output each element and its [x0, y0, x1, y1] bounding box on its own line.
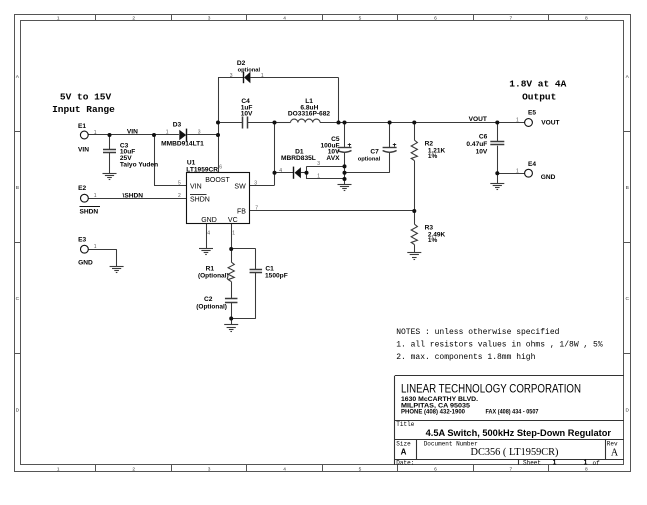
svg-text:3: 3	[208, 15, 211, 21]
svg-text:(Optional): (Optional)	[196, 304, 227, 311]
svg-text:3: 3	[208, 466, 211, 472]
svg-text:7: 7	[510, 15, 513, 21]
svg-text:1%: 1%	[428, 237, 438, 244]
svg-text:1: 1	[516, 168, 519, 174]
svg-text:2: 2	[132, 466, 135, 472]
svg-text:DO3316P-682: DO3316P-682	[288, 110, 330, 117]
svg-text:3: 3	[230, 73, 233, 79]
svg-text:7: 7	[255, 206, 258, 212]
svg-text:1: 1	[166, 129, 169, 135]
svg-text:NOTES : unless otherwise speci: NOTES : unless otherwise specified	[396, 328, 559, 337]
svg-text:1: 1	[94, 193, 97, 199]
svg-text:1: 1	[553, 460, 557, 467]
svg-text:B: B	[16, 185, 19, 191]
svg-text:4: 4	[279, 168, 282, 174]
svg-text:VOUT: VOUT	[541, 120, 559, 127]
svg-text:DC356 ( LT1959CR): DC356 ( LT1959CR)	[471, 447, 559, 458]
svg-text:SHDN: SHDN	[80, 208, 99, 215]
svg-text:MMBD914LT1: MMBD914LT1	[161, 141, 204, 148]
svg-text:D3: D3	[173, 122, 182, 129]
svg-text:3: 3	[198, 129, 201, 135]
svg-text:C: C	[625, 296, 629, 302]
svg-text:\SHDN: \SHDN	[123, 193, 144, 200]
svg-text:of: of	[593, 460, 601, 467]
svg-text:2. max. components 1.8mm high: 2. max. components 1.8mm high	[396, 353, 535, 362]
svg-text:Date:: Date:	[396, 459, 414, 466]
svg-text:8: 8	[585, 15, 588, 21]
svg-text:A: A	[611, 447, 619, 458]
svg-text:1: 1	[584, 460, 588, 467]
svg-text:4: 4	[283, 466, 286, 472]
svg-text:VC: VC	[228, 217, 238, 224]
svg-text:4: 4	[283, 15, 286, 21]
svg-text:AVX: AVX	[326, 155, 340, 162]
svg-text:1: 1	[261, 73, 264, 79]
svg-text:BOOST: BOOST	[205, 177, 230, 184]
svg-text:4.5A Switch, 500kHz Step-Down: 4.5A Switch, 500kHz Step-Down Regulator	[426, 428, 612, 439]
svg-text:1: 1	[57, 466, 60, 472]
svg-text:SW: SW	[234, 183, 246, 190]
svg-text:LINEAR TECHNOLOGY CORPORATION: LINEAR TECHNOLOGY CORPORATION	[401, 384, 581, 396]
svg-text:C: C	[16, 296, 20, 302]
svg-text:C2: C2	[204, 296, 213, 303]
svg-text:5: 5	[178, 180, 181, 186]
svg-text:U1: U1	[187, 160, 196, 167]
svg-text:E1: E1	[78, 123, 86, 130]
svg-text:3: 3	[254, 180, 257, 186]
svg-text:(Optional): (Optional)	[198, 273, 229, 280]
svg-text:C7: C7	[370, 148, 379, 155]
svg-text:A: A	[401, 447, 407, 456]
svg-text:Sheet: Sheet	[523, 459, 541, 466]
svg-text:10V: 10V	[476, 148, 488, 155]
svg-text:E4: E4	[528, 161, 536, 168]
svg-text:Taiyo Yuden: Taiyo Yuden	[120, 161, 158, 168]
svg-text:GND: GND	[541, 174, 556, 181]
svg-text:GND: GND	[201, 217, 217, 224]
svg-text:1. all resistors values in ohm: 1. all resistors values in ohms , 1/8W ,…	[396, 340, 603, 349]
svg-text:1: 1	[94, 244, 97, 250]
svg-text:6: 6	[434, 15, 437, 21]
svg-text:GND: GND	[78, 260, 93, 267]
svg-text:10V: 10V	[241, 110, 253, 117]
svg-text:1.8V at 4A: 1.8V at 4A	[509, 78, 566, 89]
svg-text:B: B	[626, 185, 629, 191]
svg-text:1: 1	[516, 118, 519, 124]
svg-text:optional: optional	[358, 156, 381, 162]
svg-text:4: 4	[207, 231, 210, 237]
svg-text:Title: Title	[396, 421, 414, 428]
svg-text:R1: R1	[206, 266, 215, 273]
svg-text:5V to 15V: 5V to 15V	[60, 91, 112, 102]
svg-text:VIN: VIN	[78, 146, 89, 153]
svg-text:1: 1	[57, 15, 60, 21]
svg-text:LT1959CR: LT1959CR	[186, 167, 218, 174]
svg-text:FAX (408) 434 - 0507: FAX (408) 434 - 0507	[486, 409, 539, 416]
svg-text:optional: optional	[238, 67, 261, 73]
svg-text:6: 6	[434, 466, 437, 472]
svg-text:D: D	[625, 407, 629, 413]
svg-text:VIN: VIN	[190, 183, 202, 190]
svg-text:1: 1	[317, 174, 320, 180]
svg-text:C6: C6	[479, 134, 488, 141]
svg-text:1: 1	[94, 130, 97, 136]
svg-text:6: 6	[219, 165, 222, 171]
svg-text:R3: R3	[425, 225, 434, 232]
svg-text:Output: Output	[522, 92, 556, 103]
svg-text:2: 2	[178, 193, 181, 199]
svg-text:5: 5	[359, 466, 362, 472]
svg-text:Input Range: Input Range	[52, 104, 115, 115]
svg-text:C1: C1	[265, 266, 274, 273]
svg-text:SHDN: SHDN	[190, 197, 210, 204]
svg-text:E3: E3	[78, 236, 86, 243]
svg-text:E2: E2	[78, 185, 86, 192]
svg-text:5: 5	[359, 15, 362, 21]
svg-text:1: 1	[232, 231, 235, 237]
svg-text:2: 2	[132, 15, 135, 21]
svg-text:E5: E5	[528, 109, 536, 116]
svg-text:VIN: VIN	[127, 129, 138, 136]
svg-text:VOUT: VOUT	[469, 116, 487, 123]
svg-text:D2: D2	[237, 60, 246, 67]
svg-text:PHONE (408) 432-1900: PHONE (408) 432-1900	[401, 409, 465, 416]
svg-text:MBRD835L: MBRD835L	[281, 155, 316, 162]
svg-text:7: 7	[510, 466, 513, 472]
svg-text:1500pF: 1500pF	[265, 273, 288, 280]
svg-text:8: 8	[585, 466, 588, 472]
svg-text:D: D	[16, 407, 20, 413]
svg-text:0.47uF: 0.47uF	[466, 141, 487, 148]
svg-text:R2: R2	[425, 140, 434, 147]
svg-text:1%: 1%	[428, 153, 438, 160]
svg-text:3: 3	[317, 161, 320, 167]
svg-text:FB: FB	[237, 209, 246, 216]
